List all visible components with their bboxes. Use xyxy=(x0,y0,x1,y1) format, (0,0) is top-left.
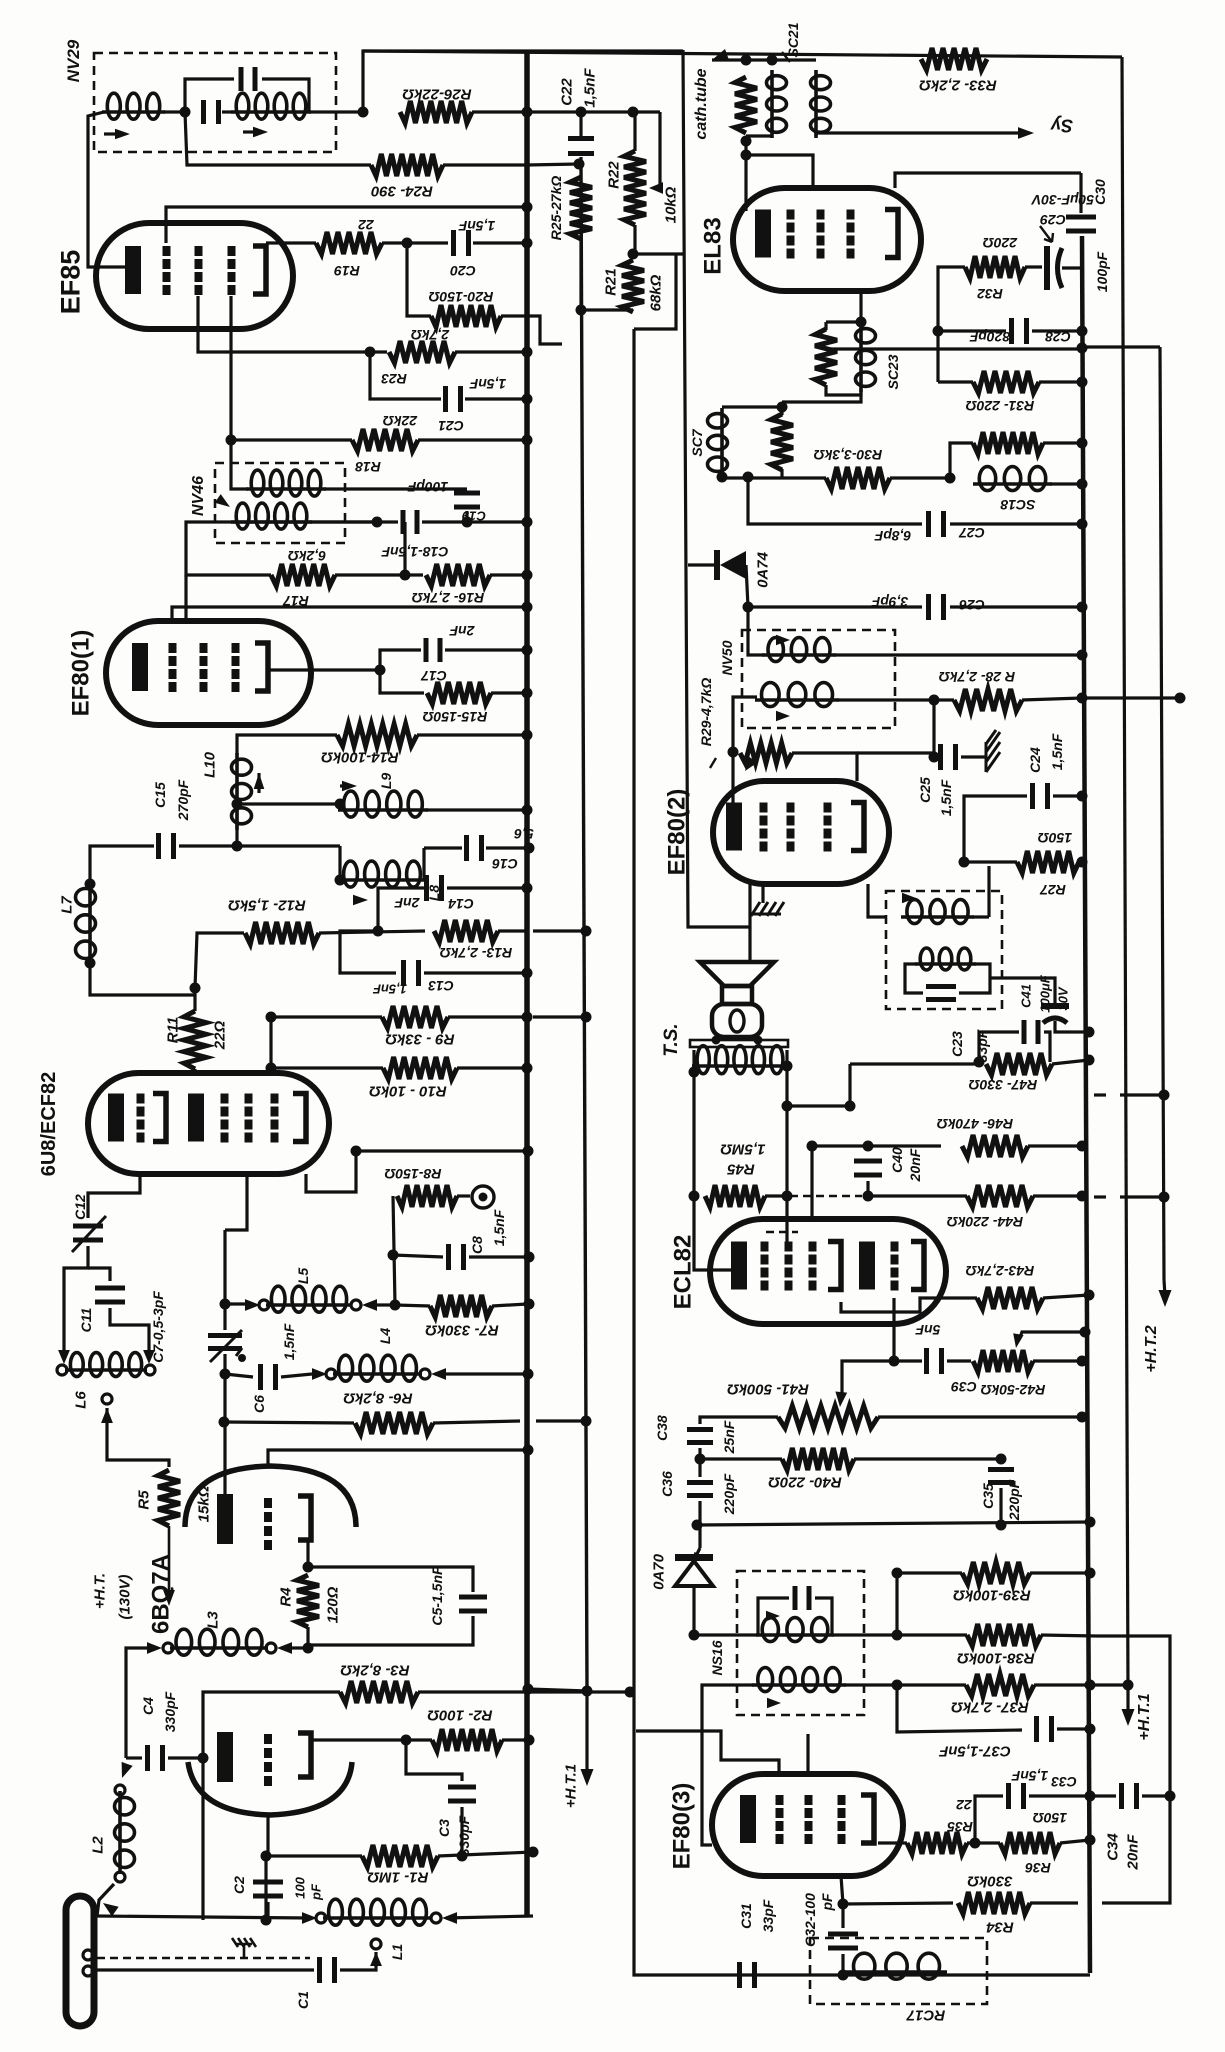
wire L2 to L1 row xyxy=(97,1884,114,1916)
resistor R36 xyxy=(1000,1832,1060,1854)
svg-text:R18: R18 xyxy=(355,459,381,475)
svg-text:C17: C17 xyxy=(420,668,447,684)
wire xyxy=(393,1255,443,1257)
label C4 value xyxy=(162,1691,178,1732)
svg-text:0A74: 0A74 xyxy=(754,551,771,588)
junction xyxy=(1123,1680,1134,1691)
resistor R25 xyxy=(570,177,592,239)
junction xyxy=(85,879,96,890)
label R34 xyxy=(986,1919,1014,1936)
svg-text:C38: C38 xyxy=(654,1415,670,1441)
svg-text:1,5nF: 1,5nF xyxy=(581,68,598,108)
wire g1 feed xyxy=(636,1731,779,1774)
junction xyxy=(1077,1191,1088,1202)
label R28 value xyxy=(939,669,1015,685)
label 5,6 xyxy=(514,826,534,842)
junction xyxy=(522,347,533,358)
junction xyxy=(807,1141,818,1152)
inductor NV50 primary xyxy=(762,638,836,662)
grid 6BQ7A lower xyxy=(264,1734,272,1786)
junction xyxy=(226,435,237,446)
svg-text:100: 100 xyxy=(293,1876,308,1898)
svg-text:270pF: 270pF xyxy=(175,779,191,821)
junction xyxy=(365,347,376,358)
wire HT2 arrow shaft xyxy=(1164,1280,1165,1296)
wire R2 to plate xyxy=(311,1738,406,1741)
label R25 value xyxy=(548,176,564,241)
wire EF80(1) grid row xyxy=(172,607,527,621)
svg-text:1,5nF: 1,5nF xyxy=(372,981,407,996)
label R40 value xyxy=(768,1474,842,1491)
wire C11 top xyxy=(88,1268,110,1281)
label C23 value xyxy=(974,1029,990,1062)
wire EF85 cathode to NV29 xyxy=(88,112,125,267)
label C40 xyxy=(889,1147,905,1173)
label R43 value xyxy=(966,1263,1035,1279)
svg-text:1,5nF: 1,5nF xyxy=(458,218,495,234)
svg-text:C22: C22 xyxy=(558,78,575,106)
wire dashed g3 xyxy=(790,1195,862,1198)
svg-text:R7- 330kΩ: R7- 330kΩ xyxy=(425,1322,499,1339)
inductor L7 xyxy=(76,882,96,965)
diode 0A74 xyxy=(714,550,746,580)
wire xyxy=(1028,1144,1082,1147)
wire EF80(3) g2 up xyxy=(806,1734,809,1774)
wire xyxy=(490,573,527,576)
label R47 value xyxy=(969,1077,1038,1093)
tube EF80(1) xyxy=(106,621,311,725)
wire +H.T.1 rail (left) xyxy=(581,164,587,1689)
label R45 xyxy=(727,1161,755,1178)
wire main HT bus (left half) xyxy=(524,51,530,1916)
capacitor C18 xyxy=(401,510,420,534)
inductor L4 xyxy=(333,1355,422,1381)
label R17 xyxy=(282,593,309,609)
svg-text:1,5nF: 1,5nF xyxy=(469,376,506,392)
antenna terminal 1 xyxy=(83,1950,93,1960)
label C28 xyxy=(1045,329,1071,345)
label C35 xyxy=(980,1483,996,1509)
junction xyxy=(582,1686,593,1697)
arrow L2 top xyxy=(122,1762,133,1778)
wire xyxy=(443,163,527,166)
label C34 value xyxy=(1124,1834,1141,1871)
capacitor C22 xyxy=(568,136,594,156)
resistor R32 xyxy=(965,256,1025,278)
wire xyxy=(897,1633,967,1636)
label C41 value b xyxy=(1056,986,1071,1010)
svg-text:C40: C40 xyxy=(889,1147,905,1173)
contact arrow L5 right xyxy=(362,1299,377,1311)
junction xyxy=(358,107,369,118)
arrow L2 bottom xyxy=(103,1903,119,1916)
svg-text:R26-22kΩ: R26-22kΩ xyxy=(402,86,472,103)
tube 6BQ7A (upper half) xyxy=(185,1466,356,1527)
svg-text:6,8pF: 6,8pF xyxy=(874,528,911,544)
resistor R24 xyxy=(371,154,443,176)
terminal L2 bottom xyxy=(115,1872,125,1882)
label C37 value xyxy=(938,1743,1011,1760)
wire SC18 left xyxy=(950,443,973,483)
svg-text:1,5nF: 1,5nF xyxy=(281,1323,297,1360)
wire xyxy=(418,438,527,441)
svg-text:R8-150Ω: R8-150Ω xyxy=(385,1166,442,1182)
svg-text:C41: C41 xyxy=(1019,984,1034,1008)
junction xyxy=(261,1851,272,1862)
junction xyxy=(390,1300,401,1311)
wire TS right rail xyxy=(785,1066,788,1243)
label R27 value xyxy=(1038,830,1072,846)
label C21 xyxy=(438,418,464,434)
svg-text:R22: R22 xyxy=(605,161,622,189)
junction xyxy=(1077,519,1088,530)
junction xyxy=(522,805,533,816)
svg-text:C24: C24 xyxy=(1027,747,1043,773)
junction xyxy=(1165,1791,1176,1802)
wire C7 down xyxy=(223,1354,226,1495)
junction xyxy=(692,1520,703,1531)
svg-text:R34: R34 xyxy=(986,1919,1014,1936)
junction xyxy=(523,1445,534,1456)
wire right block border xyxy=(634,329,1090,1975)
label tube name 6U8/ECF82 xyxy=(38,1072,60,1177)
wire C3 top xyxy=(406,1740,462,1781)
wire xyxy=(271,1066,383,1069)
wire xyxy=(309,110,363,113)
wire xyxy=(225,1302,246,1305)
wire SC21 top xyxy=(746,58,816,61)
junction xyxy=(929,752,940,763)
junction xyxy=(689,1191,700,1202)
wire EF80(2) plate xyxy=(868,884,886,917)
tube 6BQ7A (lower half) xyxy=(188,1762,352,1815)
label RC17 xyxy=(906,2007,945,2024)
svg-text:2nF: 2nF xyxy=(394,895,420,911)
resistor R28 xyxy=(954,689,1022,711)
junction xyxy=(523,1146,534,1157)
label NV46 xyxy=(190,476,207,516)
wire C23 right loop xyxy=(1044,1032,1050,1062)
contact arrow L5 left xyxy=(245,1299,260,1311)
wire xyxy=(126,1756,142,1759)
junction xyxy=(522,1063,533,1074)
wire xyxy=(633,252,685,255)
wire C21 left xyxy=(370,352,441,399)
wire top rail xyxy=(363,51,683,112)
label +H.T.1 xyxy=(1136,1693,1153,1740)
label C24 xyxy=(1027,747,1043,773)
resistor R33 xyxy=(921,48,987,70)
arrow to cath.tube xyxy=(712,49,729,60)
terminal L5 right xyxy=(351,1300,361,1310)
wire inner border xyxy=(683,50,750,927)
svg-text:330pF: 330pF xyxy=(162,1691,178,1732)
inductor SC18 xyxy=(973,467,1052,491)
svg-text:1,5nF: 1,5nF xyxy=(938,779,954,816)
terminal L1 right xyxy=(431,1913,441,1923)
arrow NV50 core 2 xyxy=(776,711,790,722)
wire antenna (dashed) xyxy=(97,1957,310,1960)
label C15 xyxy=(152,782,168,808)
label SC23 xyxy=(885,354,901,389)
wire xyxy=(897,1571,962,1574)
wire NS16 loop right xyxy=(815,1598,832,1635)
label C26 value xyxy=(871,594,908,610)
wire R29 to C25 xyxy=(857,751,934,754)
junction xyxy=(522,968,533,979)
svg-text:SC21: SC21 xyxy=(785,22,801,57)
svg-text:C15: C15 xyxy=(152,782,168,808)
junction xyxy=(261,1915,272,1926)
svg-text:2,7kΩ: 2,7kΩ xyxy=(411,327,450,343)
wire +H.T.2 rail xyxy=(1160,347,1164,1280)
svg-text:C23: C23 xyxy=(949,1031,965,1057)
junction xyxy=(892,1568,903,1579)
label L5 xyxy=(295,1268,311,1285)
wire xyxy=(438,1852,533,1856)
label C39 value xyxy=(915,1322,940,1338)
svg-text:C3: C3 xyxy=(436,1819,452,1837)
arrow NV50 core 1 xyxy=(776,635,790,646)
wire xyxy=(193,1069,196,1075)
label C41 value a xyxy=(1038,974,1053,1013)
wire xyxy=(266,1854,362,1857)
wire xyxy=(1034,1683,1090,1686)
junction xyxy=(402,238,413,249)
wire row 1525 xyxy=(697,1522,1090,1525)
potentiometer wiper arrow R22 xyxy=(649,182,663,194)
wire EF85 screen xyxy=(198,296,387,352)
transformer NV50 shield box xyxy=(742,630,895,728)
wire R9 left xyxy=(271,1015,382,1018)
svg-text:R20-150Ω: R20-150Ω xyxy=(429,289,494,305)
junction xyxy=(523,1369,534,1380)
wire xyxy=(433,1421,520,1423)
wire xyxy=(1033,1194,1082,1197)
wire into EF80(1) xyxy=(184,575,187,621)
wire L6 tap to R5 xyxy=(107,1408,169,1467)
wire xyxy=(698,1448,701,1477)
wire xyxy=(938,380,973,383)
wire xyxy=(445,648,527,651)
junction xyxy=(198,1753,209,1764)
antenna terminal 2 xyxy=(83,1966,93,1976)
transformer NS16 shield box xyxy=(737,1571,864,1715)
label C13 xyxy=(428,978,454,994)
inductor RC17 coil xyxy=(846,1953,947,1979)
svg-text:R3- 8,2kΩ: R3- 8,2kΩ xyxy=(340,1662,410,1679)
junction xyxy=(695,1454,706,1465)
label R45 value xyxy=(720,1141,765,1158)
wire R14 left xyxy=(237,735,337,755)
label C2 value b xyxy=(309,1883,324,1901)
junction xyxy=(628,107,639,118)
label R35 xyxy=(947,1819,973,1835)
label C1 xyxy=(295,1991,311,2009)
test point center xyxy=(479,1193,488,1202)
inductor L9 xyxy=(338,791,428,817)
wire C23 drop xyxy=(848,1064,851,1106)
wire R20 right xyxy=(501,316,562,344)
svg-text:NS16: NS16 xyxy=(709,1640,725,1675)
resistor R39 xyxy=(962,1562,1030,1584)
wire C17 left xyxy=(380,650,421,670)
svg-text:C33: C33 xyxy=(1051,1774,1077,1790)
label SC7 xyxy=(689,428,705,456)
svg-text:L7: L7 xyxy=(58,896,75,914)
contact arrow L3 right xyxy=(277,1642,292,1654)
wire xyxy=(465,397,527,400)
resistor R2 xyxy=(432,1729,502,1751)
label R9 value xyxy=(385,1031,455,1048)
wire NS16 loop left xyxy=(758,1598,789,1635)
svg-text:R21: R21 xyxy=(602,268,619,296)
junction xyxy=(782,1061,793,1072)
junction xyxy=(1085,1835,1096,1846)
junction xyxy=(1175,693,1186,704)
resistor R23 xyxy=(389,341,455,363)
wire xyxy=(457,1066,527,1069)
svg-text:R5: R5 xyxy=(135,1490,152,1510)
label R11 xyxy=(164,1017,181,1043)
junction xyxy=(335,799,346,810)
wire EF85 g3 drop xyxy=(231,296,352,440)
svg-text:C2: C2 xyxy=(231,1876,247,1894)
junction xyxy=(522,602,533,613)
wire xyxy=(237,802,338,805)
label tick R29 xyxy=(710,758,716,768)
wire xyxy=(536,1419,586,1422)
wire EF80(2) to ground xyxy=(761,884,764,903)
wire stub to rail 2 xyxy=(533,1015,583,1018)
junction xyxy=(85,958,96,969)
wire R29 to cathode xyxy=(731,752,734,806)
label R8 value xyxy=(385,1166,442,1182)
wire xyxy=(486,846,527,849)
svg-text:EF80(2): EF80(2) xyxy=(664,789,691,876)
label R38 value xyxy=(957,1650,1035,1667)
diode 0A70 xyxy=(675,1554,713,1586)
junction xyxy=(1077,1412,1088,1423)
wire xyxy=(179,844,237,847)
wire xyxy=(1029,1794,1090,1797)
label R27 xyxy=(1039,882,1066,898)
inductor SC21 primary xyxy=(767,70,787,138)
junction xyxy=(743,602,754,613)
junction xyxy=(303,1562,314,1573)
wire top rail right xyxy=(363,51,1122,57)
junction xyxy=(782,1101,793,1112)
svg-text:R9 - 33kΩ: R9 - 33kΩ xyxy=(385,1031,455,1048)
wire R12 left xyxy=(195,933,244,988)
label C38 xyxy=(654,1415,670,1441)
svg-text:330kΩ: 330kΩ xyxy=(967,1873,1012,1890)
wire C36 to 0A70 xyxy=(694,1548,700,1554)
svg-text:R32: R32 xyxy=(977,286,1003,302)
svg-text:C6: C6 xyxy=(251,1395,267,1413)
junction xyxy=(576,107,587,118)
label C33 value xyxy=(1011,1768,1048,1784)
wire R20 left xyxy=(407,243,431,316)
wire stub to rail xyxy=(533,929,583,932)
svg-text:0A70: 0A70 xyxy=(650,1553,667,1590)
label R6 value xyxy=(343,1390,413,1407)
svg-text:100pF: 100pF xyxy=(1094,251,1110,292)
capacitor C29 (electrolytic) xyxy=(1044,246,1082,290)
contact arrow L4 left xyxy=(312,1368,327,1380)
wire EL83 grid xyxy=(746,155,813,188)
wire xyxy=(340,784,350,787)
terminal L4 left xyxy=(326,1369,336,1379)
junction xyxy=(689,1630,700,1641)
svg-text:R37- 2,7kΩ: R37- 2,7kΩ xyxy=(951,1699,1029,1716)
junction xyxy=(522,202,533,213)
junction xyxy=(625,1687,636,1698)
arrow NS16 core 1 xyxy=(766,1611,780,1622)
wire HT1 arrow shaft xyxy=(1126,1692,1129,1712)
wire R8 drop xyxy=(393,1196,395,1305)
label R35 a xyxy=(956,1797,973,1813)
svg-text:T.S.: T.S. xyxy=(661,1023,682,1056)
grid 6BQ7A upper xyxy=(264,1498,272,1550)
label C19 xyxy=(461,508,486,523)
junction xyxy=(767,55,778,66)
svg-text:SC18: SC18 xyxy=(1000,497,1035,513)
label C35 value xyxy=(1006,1479,1022,1521)
capacitor C39 xyxy=(924,1348,944,1374)
svg-text:C39: C39 xyxy=(951,1379,977,1395)
junction xyxy=(845,1101,856,1112)
arrow L10 core xyxy=(254,773,265,789)
svg-text:120Ω: 120Ω xyxy=(324,1586,341,1623)
svg-text:R4: R4 xyxy=(277,1587,294,1607)
junction xyxy=(970,1838,981,1849)
wire xyxy=(406,1738,432,1741)
svg-text:R24- 390: R24- 390 xyxy=(370,183,432,200)
wire to Sy xyxy=(816,133,1020,136)
junction xyxy=(1077,602,1088,613)
wire TS right top xyxy=(785,1050,788,1066)
svg-text:R44- 220kΩ: R44- 220kΩ xyxy=(947,1214,1023,1230)
svg-text:1,5MΩ: 1,5MΩ xyxy=(720,1141,765,1158)
wire xyxy=(447,886,527,889)
label R4 value xyxy=(324,1586,341,1623)
wire 0A74 left xyxy=(688,563,714,566)
wire EL83 plate to C30 xyxy=(895,173,1081,188)
resistor R21 xyxy=(622,260,644,312)
svg-text:220pF: 220pF xyxy=(1006,1479,1022,1521)
terminal L3 left xyxy=(163,1643,173,1653)
junction xyxy=(351,1146,362,1157)
label R36 xyxy=(1025,1860,1051,1876)
inductor L6 xyxy=(65,1353,147,1377)
wire C30 top xyxy=(1079,173,1082,213)
junction xyxy=(1077,650,1088,661)
wire to C37 xyxy=(897,1685,1022,1732)
label tube name EF80(3) xyxy=(669,1783,696,1870)
arrow L6 tap xyxy=(101,1408,113,1423)
svg-text:1,5nF: 1,5nF xyxy=(491,1209,507,1246)
junction xyxy=(1077,326,1088,337)
svg-text:C37-1,5nF: C37-1,5nF xyxy=(938,1743,1011,1760)
label R39 value xyxy=(953,1587,1031,1604)
label R41 value xyxy=(727,1381,809,1398)
label R4 xyxy=(277,1587,294,1607)
junction xyxy=(1085,1680,1096,1691)
svg-text:C29: C29 xyxy=(1040,212,1066,228)
resistor R37 xyxy=(966,1674,1034,1696)
label R18 value xyxy=(383,413,418,429)
